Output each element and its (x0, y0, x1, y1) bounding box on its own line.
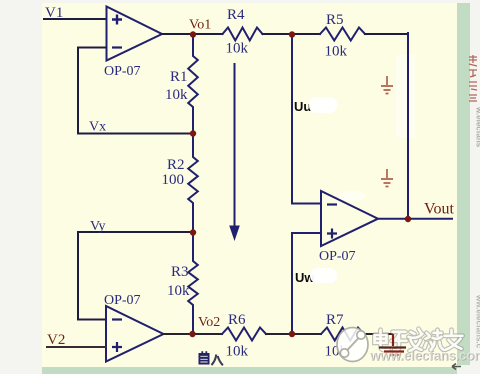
svg-text:www.elecfans.com: www.elecfans.com (369, 348, 480, 363)
op-amp U2 plus symbol (112, 342, 122, 352)
resistor R3 (188, 233, 198, 334)
bottom-right corner arrow (452, 364, 461, 370)
small red ground mark lower (381, 169, 393, 187)
node R6-R7 junction (289, 331, 295, 337)
svg-text:R4: R4 (227, 7, 245, 23)
node Vout (405, 216, 411, 222)
resistor R7 (321, 328, 364, 341)
white patch next to Uw (310, 268, 337, 283)
small red ground mark upper (381, 76, 393, 94)
wire Vy horizontal (78, 231, 193, 233)
svg-text:OP-07: OP-07 (104, 64, 141, 79)
resistor R6 (222, 328, 266, 341)
right scrollbar strip (457, 3, 470, 365)
svg-text:OP-07: OP-07 (104, 293, 141, 308)
op-amp U2 triangle (106, 306, 164, 362)
node R4-R5 junction (289, 31, 295, 37)
node Vo1 (190, 31, 196, 37)
wire U1 inverting input (78, 47, 106, 49)
svg-text:V1: V1 (45, 5, 63, 21)
svg-text:100: 100 (162, 172, 185, 188)
svg-text:10k: 10k (226, 41, 249, 57)
svg-text:R3: R3 (171, 264, 189, 280)
wire junction down to U3 inverting input (292, 34, 321, 204)
wire V2 input (47, 346, 106, 348)
svg-text:R6: R6 (228, 312, 246, 328)
ground at R7 (379, 334, 406, 355)
svg-text:10k: 10k (167, 283, 190, 299)
wire R7 to ground (364, 333, 392, 335)
svg-text:10k: 10k (325, 44, 348, 60)
svg-text:Vo2: Vo2 (198, 315, 220, 330)
wire R5 right feedback down to Vout node (365, 33, 407, 35)
svg-text:OP-07: OP-07 (319, 249, 356, 264)
svg-text:10k: 10k (165, 87, 188, 103)
node Vy (190, 229, 196, 235)
watermark chinese characters (375, 329, 463, 351)
node Vx (190, 130, 196, 136)
op-amp U1 minus symbol (112, 46, 122, 48)
svg-text:R7: R7 (326, 312, 344, 328)
node Vo2 (189, 331, 195, 337)
svg-text:Uu: Uu (294, 99, 311, 114)
caption figure eight (199, 351, 223, 365)
op-amp U1 plus symbol (112, 15, 122, 25)
svg-text:R2: R2 (167, 157, 185, 173)
white watermark halo bands (396, 55, 415, 137)
bottom scrollbar strip (42, 367, 457, 374)
svg-text:R1: R1 (170, 69, 188, 85)
wire V1 input (44, 18, 106, 20)
op-amp U2 minus symbol (112, 318, 122, 320)
wire U2 feedback vertical (78, 232, 106, 320)
svg-text:Vout: Vout (424, 201, 454, 218)
svg-text:10k: 10k (226, 344, 249, 360)
wire U1 feedback vertical to Vx (78, 48, 193, 134)
resistor R5 (320, 28, 365, 41)
svg-text:Vx: Vx (89, 120, 106, 135)
wire U2 output (163, 333, 222, 335)
white patch next to Uu (309, 97, 337, 113)
resistor R2 (188, 134, 198, 232)
arrow down middle (229, 63, 240, 241)
svg-text:V2: V2 (47, 332, 65, 348)
wire U1 output to Vo1 (162, 33, 223, 35)
resistor R1 (188, 34, 198, 133)
wire R6 to R7 (266, 333, 321, 335)
svg-text:ww.elecfans.c: ww.elecfans.c (475, 294, 480, 349)
op-amp U3 triangle (321, 191, 378, 246)
op-amp U3 plus symbol (327, 229, 337, 239)
svg-text:w.elecfans: w.elecfans (475, 106, 480, 148)
right edge vertical watermark marks red (469, 55, 477, 101)
svg-text:R5: R5 (326, 12, 344, 28)
resistor R4 (223, 28, 263, 41)
op-amp U1 triangle (107, 7, 163, 61)
svg-text:Vo1: Vo1 (189, 18, 211, 33)
svg-text:Vy: Vy (90, 219, 106, 234)
op-amp U3 minus symbol (327, 203, 337, 205)
wire R4 to junction (263, 33, 321, 35)
right edge vertical watermark text lower gray (475, 106, 480, 148)
watermark logo circle (337, 328, 368, 362)
wire U3 noninverting input vertical (292, 233, 321, 334)
wire U3 output to Vout (378, 218, 452, 220)
